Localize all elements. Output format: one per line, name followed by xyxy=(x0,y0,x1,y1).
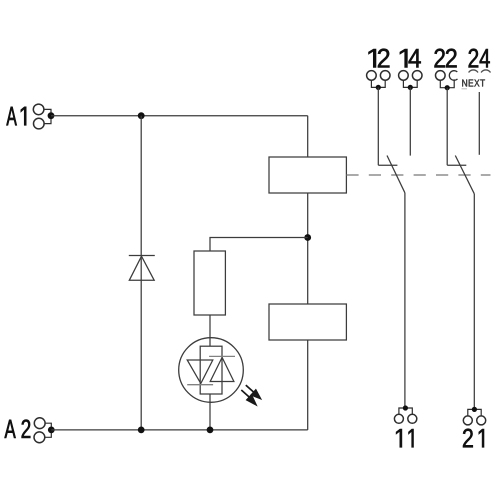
wire resistor to LED xyxy=(209,315,211,346)
wire LED to bottom rail xyxy=(209,394,211,430)
LED emission arrow 2 xyxy=(241,390,257,406)
terminal 24 arcs (next unit) xyxy=(469,70,491,73)
contact 1: wire 12 to NC xyxy=(377,87,379,165)
contact 1 common wire to 11 xyxy=(404,193,406,408)
node 11 xyxy=(403,405,408,410)
node A1 junction xyxy=(48,112,55,119)
contact 1: wire 14 NO xyxy=(409,87,411,155)
node center junction xyxy=(304,234,311,241)
node 12 xyxy=(376,85,381,90)
wire coil to lower block xyxy=(307,193,309,304)
terminal 21 xyxy=(463,409,485,425)
wire top rail A1 xyxy=(51,115,308,117)
node 22 xyxy=(445,85,450,90)
node 14 xyxy=(408,85,413,90)
node bottom rail LED junction xyxy=(207,427,214,434)
label 22 xyxy=(435,49,457,68)
node 21 xyxy=(472,407,477,412)
wire branch to resistor xyxy=(210,238,308,252)
LED emission arrow 1 xyxy=(246,385,262,399)
node top rail junction xyxy=(138,112,145,119)
label 14 xyxy=(400,49,421,68)
relay coil K1 xyxy=(269,157,346,193)
wire bottom rail A2 xyxy=(51,429,307,431)
terminal 12 xyxy=(367,71,390,88)
label A2 xyxy=(5,420,31,438)
label A1 xyxy=(6,107,26,126)
label NEXT xyxy=(462,80,485,87)
terminal A2 xyxy=(34,418,51,443)
NEXT underline mark xyxy=(462,88,468,90)
wire block to bottom rail xyxy=(307,340,309,430)
label 12 xyxy=(369,49,390,68)
label 24 xyxy=(469,49,490,68)
terminal 14 xyxy=(399,71,422,88)
node A2 junction xyxy=(48,427,55,434)
contact 2 common wire to 21 xyxy=(473,194,475,410)
LED indicator circle xyxy=(179,338,244,403)
node bottom rail diode junction xyxy=(138,427,145,434)
contact 2 lever xyxy=(455,156,474,194)
contact 2 NC bar xyxy=(447,164,466,166)
label 11 xyxy=(396,429,413,447)
LED left diode (down) xyxy=(187,360,213,384)
contact 2: wire 24 NO xyxy=(478,92,480,155)
lower block (relay element) xyxy=(269,304,346,340)
diode V1 xyxy=(129,256,155,281)
terminal 22 xyxy=(436,71,458,88)
contact 2: wire 22 to NC xyxy=(446,88,448,166)
LED left cathode bar xyxy=(187,384,213,386)
wire rail to coil xyxy=(307,116,309,157)
LED right cathode bar xyxy=(209,355,235,357)
contact 1 lever xyxy=(387,156,405,193)
LED right diode (up) xyxy=(210,357,234,381)
dashed actuation link xyxy=(346,174,490,176)
wire diode branch xyxy=(140,116,142,430)
terminal A1 xyxy=(33,104,51,129)
contact 1 NC bar xyxy=(378,164,397,166)
terminal 11 xyxy=(394,408,416,423)
label 21 xyxy=(463,429,484,448)
resistor R1 xyxy=(194,251,225,315)
LED inner rectangle xyxy=(200,346,222,394)
